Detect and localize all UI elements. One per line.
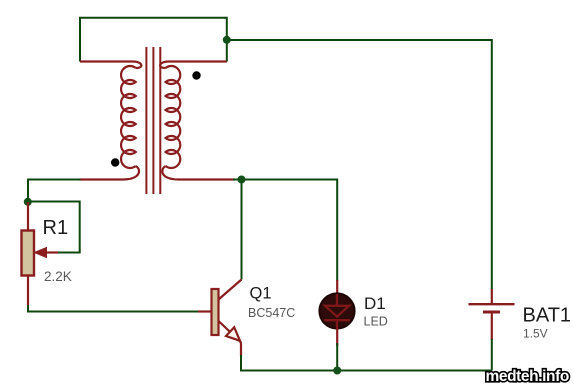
svg-text:1.5V: 1.5V	[523, 327, 548, 341]
BAT1 top pin	[491, 289, 493, 304]
secondary bottom lead	[162, 166, 234, 180]
wire top branch to battery	[227, 40, 492, 290]
polarity dot secondary	[192, 71, 200, 79]
wire emitter to bottom	[241, 355, 492, 371]
svg-text:R1: R1	[43, 217, 69, 239]
R1 body	[22, 231, 35, 276]
primary top lead	[80, 62, 141, 69]
BAT1 bottom pin	[491, 314, 493, 341]
svg-text:LED: LED	[364, 315, 388, 329]
wire wiper loop	[28, 202, 80, 253]
D1 symbol	[324, 294, 350, 328]
Q1 base bar	[212, 289, 219, 335]
R1 bottom pin	[27, 276, 29, 307]
wire LED to bottom	[336, 343, 338, 371]
primary winding	[121, 66, 136, 168]
svg-text:Q1: Q1	[250, 285, 272, 303]
svg-text:D1: D1	[364, 294, 386, 313]
D1 body	[319, 293, 354, 328]
transformer T1	[80, 62, 235, 180]
battery BAT1	[469, 289, 515, 340]
BAT1 positive plate	[469, 303, 515, 305]
resistor R1	[22, 202, 59, 306]
wire transformer bottom-right to LED	[233, 180, 337, 282]
transistor Q1	[198, 280, 242, 357]
wire transformer bottom-left	[28, 180, 81, 202]
svg-text:2.2K: 2.2K	[44, 269, 72, 284]
R1 top pin	[27, 202, 29, 231]
wire battery to bottom	[491, 339, 493, 371]
node LED bottom junction	[333, 367, 341, 375]
secondary winding	[166, 66, 181, 168]
BAT1 negative plate	[483, 311, 500, 314]
node collector junction	[238, 176, 246, 184]
node R1 junction	[24, 198, 32, 206]
secondary top lead	[160, 62, 227, 69]
wire collector rail	[241, 180, 243, 280]
D1 bottom pin	[336, 328, 338, 346]
R1 wiper arrow	[42, 251, 58, 253]
wire R1 to base	[28, 305, 199, 312]
node top junction	[223, 36, 231, 44]
svg-text:BC547C: BC547C	[248, 306, 295, 320]
Q1 emitter lead	[219, 321, 242, 356]
svg-text:medteh.info: medteh.info	[486, 368, 569, 385]
Q1 collector lead	[219, 280, 242, 300]
Q1 emitter arrow	[226, 327, 240, 341]
wire top rectangle	[80, 18, 227, 62]
Q1 base pin	[198, 310, 212, 312]
polarity dot primary	[111, 158, 119, 166]
primary bottom lead	[80, 166, 139, 180]
svg-text:BAT1: BAT1	[523, 305, 572, 327]
LED D1	[319, 280, 354, 346]
D1 top pin	[336, 280, 338, 294]
transformer core	[146, 47, 160, 194]
